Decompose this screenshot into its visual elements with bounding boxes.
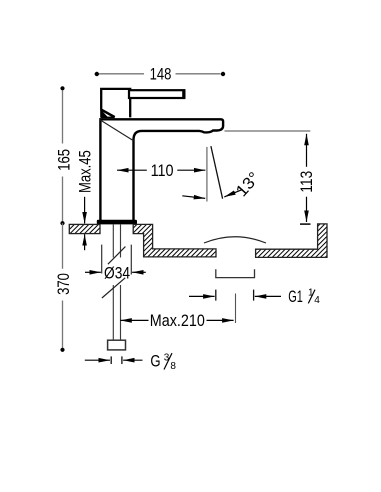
dimension Max.45 (counter thickness) (75, 150, 94, 250)
stream vertical reference line (206, 147, 208, 202)
drain center line (235, 294, 237, 324)
svg-text:3: 3 (164, 352, 170, 363)
supply pipes (lower segment) (113, 285, 120, 340)
angle arrow lower left (182, 196, 205, 199)
hose end fitting (108, 340, 126, 350)
basin bottom arc over drain (204, 237, 266, 243)
dimension 165 (left height) (55, 86, 74, 225)
svg-text:Max.45: Max.45 (75, 150, 94, 193)
faucet base plate (97, 220, 137, 225)
svg-text:4: 4 (314, 295, 320, 306)
dimension 110 (spout reach) (117, 161, 205, 180)
svg-text:G: G (150, 351, 160, 370)
svg-text:Ø34: Ø34 (104, 263, 130, 282)
drain fitting U outline (216, 269, 255, 277)
pipe break slash 1 (108, 247, 126, 265)
angle 13 deg leader arrow (224, 189, 242, 197)
faucet handle block (100, 89, 130, 118)
dimension Max.210 (hose length) (120, 311, 233, 330)
faucet lever bar (129, 89, 186, 98)
basin left wall + bottom (hatched Z piece) (133, 224, 216, 257)
countertop left slab (hatched) (69, 224, 100, 233)
outlet height extension line (225, 130, 311, 132)
supply pipes (upper segment) (113, 225, 120, 258)
dimension 370 (total height below) (54, 223, 73, 352)
svg-text:148: 148 (150, 64, 172, 83)
dimension G 1 1/4 (drain thread) (189, 287, 320, 306)
svg-text:Max.210: Max.210 (150, 311, 205, 330)
svg-text:113: 113 (297, 171, 316, 193)
dimension diameter 34 (hole) (85, 245, 146, 283)
svg-text:8: 8 (170, 361, 176, 372)
pipe break slash 2 (102, 278, 125, 298)
svg-text:370: 370 (54, 273, 73, 295)
dimension G 3/8 (hose thread) (85, 351, 177, 372)
basin right wall + bottom (hatched L piece) (256, 224, 327, 258)
svg-text:G1: G1 (288, 287, 303, 306)
dimension 113 (outlet height) (297, 134, 316, 224)
svg-text:110: 110 (151, 161, 174, 180)
stream angled line (211, 146, 223, 199)
dimension 148 (top width) (95, 64, 226, 83)
faucet body and spout outline (100, 119, 224, 221)
svg-text:165: 165 (55, 149, 74, 171)
